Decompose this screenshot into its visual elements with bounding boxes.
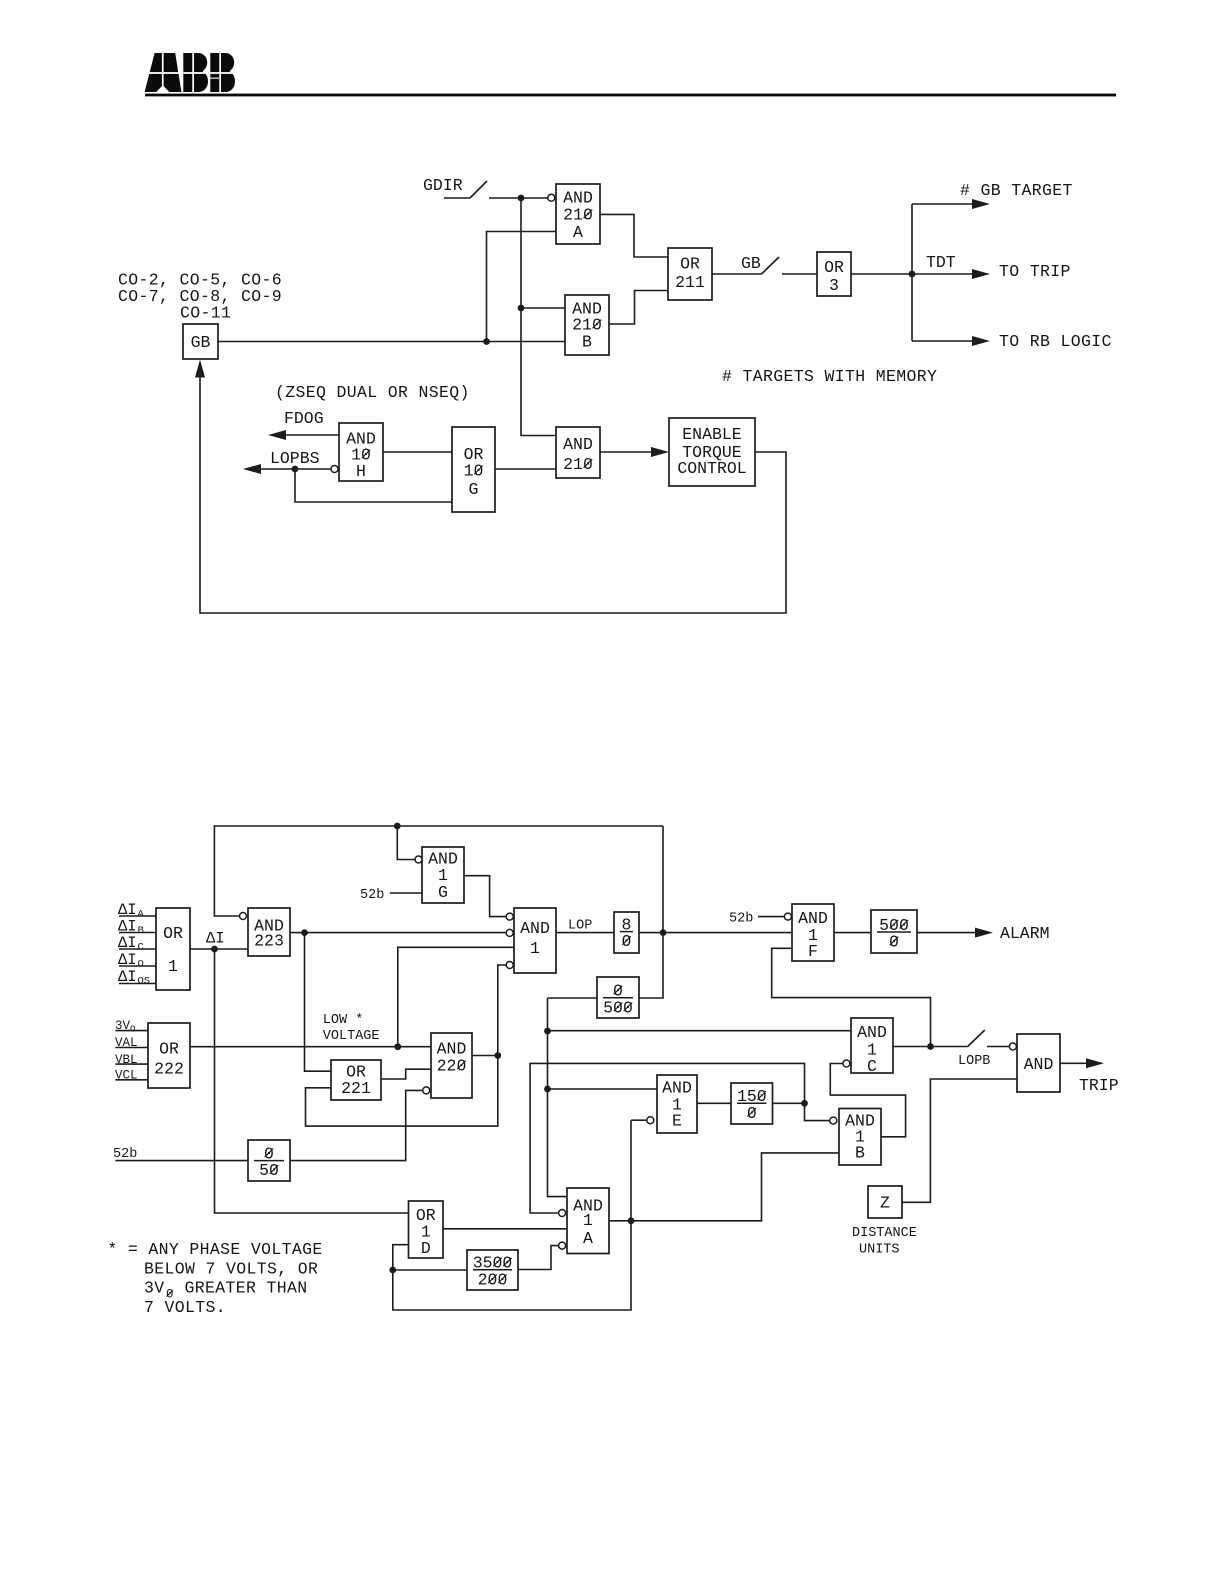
wire vertical GDIR junction down to AND 210 input (521, 198, 556, 436)
bubble AND1B input (830, 1117, 837, 1124)
svg-text:10: 10 (464, 462, 484, 481)
junction 3500/200 input (389, 1267, 396, 1274)
wire ALARM arrow (917, 932, 975, 934)
svg-text:211: 211 (675, 273, 705, 292)
svg-text:E: E (672, 1112, 682, 1131)
bubble AND1F input (784, 913, 791, 920)
wire AND1B output loop to AND1C bubble (830, 1064, 905, 1137)
svg-text:GB: GB (741, 254, 761, 273)
wire TRIP arrow (1060, 1062, 1086, 1064)
wire AND1F output to 500/0 (834, 932, 871, 934)
junction AND1E feed (544, 1086, 551, 1093)
bubble AND1 input 4 (506, 962, 513, 969)
junction AND220 output (494, 1052, 501, 1059)
gate AND 223 (248, 908, 290, 956)
wire input delta-IA (119, 915, 156, 917)
block Z distance units (868, 1186, 902, 1218)
svg-text:ENABLE: ENABLE (682, 425, 742, 444)
wire OR1D output to AND1A (443, 1228, 567, 1230)
junction delta-I node (211, 946, 218, 953)
svg-text:G: G (469, 480, 479, 499)
wire 52b to AND1G (390, 892, 422, 894)
svg-text:50: 50 (259, 1161, 279, 1180)
svg-text:ALARM: ALARM (1000, 924, 1050, 943)
gate AND 1 B (839, 1109, 881, 1166)
bubble AND1C input (843, 1060, 850, 1067)
gate AND 1 E (657, 1075, 697, 1133)
svg-text:OR: OR (159, 1040, 179, 1059)
svg-text:B: B (138, 925, 144, 937)
gate AND 1 C (851, 1018, 893, 1076)
wire FDOG arrow (284, 434, 339, 436)
svg-text:1: 1 (168, 957, 178, 976)
wire output bus vertical (911, 204, 913, 341)
switch blade LOPB (968, 1030, 985, 1047)
wire OR10G to AND210 (495, 468, 556, 470)
wire AND223 output down to OR221 (305, 933, 332, 1072)
svg-text:G: G (438, 883, 448, 902)
wire feedback to AND1G bubble (397, 826, 415, 860)
wire ENABLE feedback loop to GB (200, 377, 786, 613)
bubble AND1A input 2 (559, 1210, 566, 1217)
svg-text:210: 210 (563, 206, 593, 225)
wire AND223 output to AND1 bubble 2 (290, 932, 506, 934)
svg-text:LOP: LOP (568, 919, 592, 934)
wire OR3 output (851, 273, 912, 275)
wire AND1A output to AND1B (609, 1153, 839, 1221)
svg-text:GREATER THAN: GREATER THAN (185, 1279, 308, 1298)
gate AND 1 F (792, 904, 834, 961)
svg-text:D: D (421, 1239, 431, 1258)
bubble AND1 input 2 (506, 929, 513, 936)
junction 8/0 output (660, 929, 667, 936)
bubble AND220 input (423, 1087, 430, 1094)
svg-text:500: 500 (603, 998, 633, 1017)
wire 150/0 junction loop to AND1A bubble (530, 1063, 804, 1213)
wire 8/0 output to AND1F (639, 932, 792, 934)
bubble AND1 input 1 (506, 913, 513, 920)
bubble AND1A input 4 (559, 1242, 566, 1249)
wire input delta-IB (119, 932, 156, 934)
bubble AND223 input (240, 913, 247, 920)
junction AND1A output (628, 1217, 635, 1224)
wire LOPBS arrow (259, 468, 331, 470)
gate OR 221 (331, 1060, 381, 1100)
wire input VAL (115, 1047, 148, 1049)
svg-text:1: 1 (530, 939, 540, 958)
wire GDIR to AND210A bubble (489, 197, 548, 199)
bubble AND210A input (548, 194, 555, 201)
wire LOPB to final AND bubble (987, 1046, 1009, 1048)
svg-text:B: B (582, 333, 592, 352)
bubble AND1G input (415, 856, 422, 863)
wire TO RB LOGIC arrow (912, 340, 973, 342)
svg-text:221: 221 (341, 1079, 371, 1098)
wire Z output to final AND input 2 (902, 1079, 1017, 1202)
gate OR 1 (156, 908, 190, 990)
wire input VCL (115, 1079, 148, 1081)
svg-text:52b: 52b (729, 912, 753, 927)
svg-text:Z: Z (880, 1194, 890, 1213)
ABB logo (143, 53, 236, 92)
svg-text:# TARGETS WITH MEMORY: # TARGETS WITH MEMORY (722, 367, 937, 386)
gate AND 220 (431, 1033, 472, 1098)
svg-text:(ZSEQ DUAL OR NSEQ): (ZSEQ DUAL OR NSEQ) (275, 383, 470, 402)
svg-text:TO TRIP: TO TRIP (999, 262, 1071, 281)
header rule (145, 94, 1116, 97)
gate AND 210 A (556, 184, 600, 244)
svg-text:A: A (573, 223, 583, 242)
junction 150/0 output (801, 1100, 808, 1107)
junction feedback to AND1G (394, 823, 401, 830)
wire OR1 output to delta-I node (190, 948, 248, 950)
block GB (183, 324, 218, 359)
wire AND1G output to AND1 bubble 1 (464, 876, 506, 917)
svg-text:7 VOLTS.: 7 VOLTS. (144, 1298, 226, 1317)
wire input VBL (115, 1063, 148, 1065)
junction AND223 output (301, 929, 308, 936)
timer 3500/200 (467, 1250, 518, 1290)
timer 150/0 (731, 1083, 773, 1124)
wire OR222 output to AND220 (190, 1046, 431, 1048)
wire TO TRIP arrow (912, 273, 973, 275)
wire OR221 output to AND220 (381, 1069, 431, 1079)
wire OR211 output (712, 273, 762, 275)
wire 8/0 junction to feedback and 0/500 (639, 826, 663, 998)
wire vertical to AND1A input 1 (548, 998, 568, 1197)
wire input delta-IOS (119, 983, 156, 985)
wire GB output line to AND210B (218, 341, 565, 343)
wire AND210B output to OR211 (609, 291, 668, 325)
wire 0/500 left to AND1C line (548, 997, 598, 999)
wire AND220 output loop to AND1 bubble and OR221 (306, 965, 507, 1126)
gate OR 10 G (452, 427, 495, 512)
wire 150/0 output (773, 1102, 805, 1104)
wire 52b to AND1F bubble (758, 916, 784, 918)
timer 0/500 (597, 977, 639, 1018)
timer 8/0 (614, 912, 639, 953)
bubble AND1E input (647, 1117, 654, 1124)
junction at AND210B input 1 (518, 305, 525, 312)
svg-text:AND: AND (563, 435, 593, 454)
svg-text:BELOW 7 VOLTS, OR: BELOW 7 VOLTS, OR (144, 1259, 318, 1278)
gate final AND (1017, 1034, 1060, 1092)
wire top feedback to AND223 bubble (214, 826, 663, 916)
gate OR 1 D (409, 1201, 444, 1258)
gate OR 3 (817, 252, 851, 296)
switch blade GDIR (470, 181, 487, 198)
wire to 3500/200 (393, 1269, 467, 1271)
svg-text:OR: OR (824, 258, 844, 277)
bubble AND10H input (331, 466, 338, 473)
wire AND1F input 2 from AND1C output (772, 948, 931, 1046)
svg-text:3: 3 (829, 276, 839, 295)
junction AND1C feed (544, 1028, 551, 1035)
wire AND210A output to OR211 (600, 214, 668, 257)
wire AND1E bubble lead (631, 1119, 647, 1121)
svg-text:GDIR: GDIR (423, 176, 463, 195)
junction LOPBS node (292, 466, 299, 473)
svg-text:C: C (138, 942, 144, 954)
svg-text:TO RB LOGIC: TO RB LOGIC (999, 332, 1112, 351)
svg-text:222: 222 (154, 1060, 184, 1079)
wire 0/50 output to AND220 bubble (290, 1090, 423, 1160)
svg-text:UNITS: UNITS (859, 1243, 900, 1258)
junction AND1C output (927, 1043, 934, 1050)
svg-text:AND: AND (1024, 1055, 1054, 1074)
svg-text:200: 200 (478, 1270, 508, 1289)
svg-text:223: 223 (254, 932, 284, 951)
svg-text:VOLTAGE: VOLTAGE (323, 1029, 380, 1044)
wire GB TARGET arrow (912, 203, 973, 205)
wire input delta-IO (119, 965, 156, 967)
wire LOPBS down to OR10G (295, 469, 452, 502)
svg-text:220: 220 (437, 1057, 467, 1076)
svg-text:LOW *: LOW * (323, 1013, 364, 1028)
junction OR222 output (394, 1043, 401, 1050)
svg-text:OR: OR (680, 255, 700, 274)
svg-text:ΔI: ΔI (206, 930, 225, 948)
svg-text:F: F (808, 942, 818, 961)
wire AND1E output to 150/0 (697, 1102, 731, 1104)
svg-text:DISTANCE: DISTANCE (852, 1226, 917, 1241)
svg-text:210: 210 (563, 455, 593, 474)
svg-text:B: B (855, 1144, 865, 1163)
svg-text:# GB TARGET: # GB TARGET (960, 181, 1073, 200)
block ENABLE TORQUE CONTROL (669, 418, 755, 486)
svg-text:0: 0 (889, 933, 899, 952)
bubble final AND input (1009, 1043, 1016, 1050)
junction GB line (483, 338, 490, 345)
svg-text:LOPBS: LOPBS (270, 449, 320, 468)
wire AND220 output (472, 1055, 498, 1057)
svg-text:A: A (583, 1229, 593, 1248)
wire to AND1C input 1 (548, 1030, 852, 1032)
wire delta-I vertical to OR1D (215, 949, 409, 1213)
svg-text:0: 0 (747, 1104, 757, 1123)
wire GB switch to OR3 (782, 273, 817, 275)
gate AND 210 B (565, 295, 609, 355)
gate AND 10 H (339, 423, 383, 481)
wire 150/0 junction to AND1B bubble (805, 1103, 830, 1120)
wire LOP AND1 output to 8/0 (556, 932, 614, 934)
wire 3500/200 output to AND1A bubble (518, 1246, 559, 1270)
wire AND10H to OR10G (383, 451, 452, 453)
svg-text:TDT: TDT (926, 253, 956, 272)
timer 0/50 (248, 1140, 290, 1181)
svg-text:FDOG: FDOG (284, 409, 324, 428)
wire to AND210B input 1 (521, 307, 565, 309)
svg-text:52b: 52b (113, 1147, 137, 1162)
wire 52b bottom to 0/50 (115, 1160, 248, 1162)
wire AND1C output (893, 1046, 968, 1048)
junction GDIR node (518, 195, 525, 202)
svg-text:1: 1 (583, 1211, 593, 1230)
gate OR 211 (668, 248, 712, 300)
svg-text:52b: 52b (360, 888, 384, 903)
wire input delta-IC (119, 948, 156, 950)
wire AND210 output arrow to ENABLE (600, 451, 652, 453)
svg-text:AND: AND (520, 919, 550, 938)
svg-text:VBL: VBL (115, 1053, 138, 1067)
svg-text:O: O (130, 1025, 135, 1035)
gate AND 210 (556, 427, 600, 478)
gate AND 1 (514, 908, 556, 973)
wire GDIR lead-in (444, 197, 470, 199)
svg-text:OS: OS (138, 976, 151, 988)
svg-text:CONTROL: CONTROL (677, 459, 746, 478)
svg-text:* = ANY PHASE VOLTAGE: * = ANY PHASE VOLTAGE (107, 1240, 322, 1259)
wire AND210A lower input from GB line (487, 232, 557, 342)
gate AND 1 G (422, 847, 464, 903)
svg-text:LOPB: LOPB (958, 1054, 990, 1069)
svg-text:OR: OR (163, 924, 183, 943)
svg-text:AND: AND (857, 1023, 887, 1042)
wire OR1D input 2 loop (393, 1120, 631, 1310)
svg-text:A: A (138, 909, 145, 921)
junction TDT node (909, 271, 916, 278)
gate OR 222 (148, 1023, 190, 1088)
svg-text:C: C (867, 1057, 877, 1076)
gate AND 1 A (567, 1188, 609, 1254)
svg-text:O: O (138, 959, 144, 971)
svg-text:GB: GB (191, 333, 211, 352)
wire low-voltage to AND1 input 3 (398, 947, 514, 1046)
wire input 3V0 (115, 1030, 148, 1032)
svg-text:CO-11: CO-11 (180, 304, 231, 323)
svg-text:H: H (356, 462, 366, 481)
svg-text:3V: 3V (144, 1279, 165, 1298)
switch blade GB (762, 257, 780, 274)
svg-text:0: 0 (622, 932, 632, 951)
svg-text:TRIP: TRIP (1079, 1076, 1119, 1095)
wire to AND1E input 1 (548, 1088, 658, 1090)
timer 500/0 (871, 910, 917, 953)
